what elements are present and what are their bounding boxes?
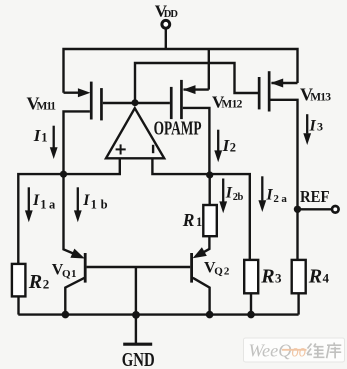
svg-text:OPAMP: OPAMP: [154, 117, 202, 139]
svg-text:Q2: Q2: [214, 266, 230, 278]
svg-text:M13: M13: [310, 92, 331, 104]
svg-text:1b: 1b: [91, 198, 108, 212]
svg-text:R: R: [308, 266, 322, 288]
svg-text:1: 1: [196, 215, 202, 229]
svg-text:I: I: [309, 117, 317, 134]
svg-text:Q1: Q1: [62, 268, 77, 280]
svg-text:I: I: [265, 187, 273, 204]
svg-text:I: I: [225, 185, 233, 202]
svg-text:I: I: [32, 192, 40, 209]
svg-text:4: 4: [323, 271, 330, 286]
svg-text:M12: M12: [221, 99, 242, 111]
svg-text:3: 3: [317, 119, 323, 133]
svg-text:R: R: [28, 271, 42, 293]
svg-text:D: D: [170, 9, 178, 20]
svg-text:2b: 2b: [233, 192, 244, 203]
svg-text:1: 1: [41, 130, 47, 144]
svg-text:I: I: [82, 192, 90, 209]
svg-text:R: R: [260, 266, 274, 288]
svg-text:3: 3: [275, 271, 282, 286]
svg-text:2: 2: [230, 141, 236, 155]
svg-text:2: 2: [43, 276, 50, 291]
svg-text:M11: M11: [37, 100, 57, 112]
svg-text:R: R: [182, 210, 195, 230]
svg-text:REF: REF: [300, 188, 330, 206]
svg-text:GND: GND: [122, 348, 155, 369]
svg-text:1a: 1a: [40, 198, 56, 212]
svg-text:2a: 2a: [273, 193, 287, 205]
